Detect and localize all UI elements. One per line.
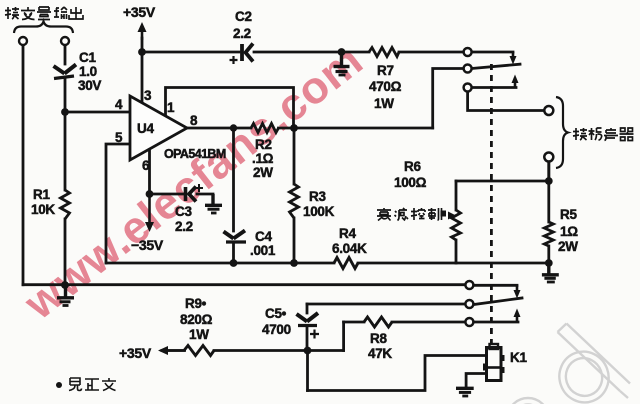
capacitor C4 [224,231,247,243]
wire line to contactB [307,303,465,306]
capacitor C1 [54,65,77,79]
char 制 [428,208,442,220]
svg-text:3: 3 [144,88,152,103]
ground G3 input [57,285,74,306]
cjk label 见正文 with bullet [56,378,116,391]
ground G4 R5 [542,263,559,282]
arrow contact lower up [516,316,519,322]
wire left input drop [22,45,25,285]
wire riser to contact2 [433,69,464,129]
arrow +35V bottom left [166,349,186,352]
char 减 [395,208,409,221]
wire C3 right to ground [197,194,213,200]
wire R6 pot left [455,181,458,263]
cjk label 衰减控制 [377,208,442,221]
bullet [56,382,62,388]
capacitor C5 plus [310,330,319,339]
char 声 [604,128,618,141]
capacitor C2 [242,44,253,62]
wire output [187,127,433,130]
wire inner bottom rail [106,262,456,265]
svg-text:5: 5 [115,130,123,145]
cjk label 接交叠输出 [5,7,83,20]
input brace (horizontal) [14,22,73,34]
svg-text:+35V: +35V [119,345,152,361]
speaker terminal 2 [544,153,553,162]
svg-text:.1Ω: .1Ω [252,151,274,166]
capacitor C3 [186,187,197,202]
svg-text:100K: 100K [303,204,335,219]
svg-text:100Ω: 100Ω [394,175,427,190]
svg-text:6: 6 [142,158,150,173]
wire R6 box top [456,180,549,183]
wire R5 branch [547,161,550,263]
svg-text:2.2: 2.2 [175,219,193,234]
wire bottom to relay [308,356,487,391]
arrow contact upper down [512,52,515,57]
char 杨 [589,128,602,140]
svg-text:820Ω: 820Ω [180,312,213,327]
wire contact3 to speaker [468,92,545,111]
svg-text:U4: U4 [137,121,154,136]
contact circle A [465,281,473,289]
wire pin6 [148,148,151,194]
char 出 [69,7,83,19]
arrow -35V [148,194,151,224]
wire C1 to R1 to ground [64,77,67,285]
svg-text:1: 1 [167,100,175,115]
char 见 [69,378,82,391]
wire R9 +35V line [162,349,344,352]
svg-text:30V: 30V [78,78,101,93]
svg-text:2.2: 2.2 [233,26,251,41]
svg-text:10K: 10K [31,202,55,217]
svg-text:R2: R2 [255,137,272,152]
arrow +35V top [141,30,144,40]
svg-text:C2: C2 [235,9,252,24]
svg-text:8: 8 [190,113,198,128]
svg-text:1W: 1W [374,96,394,111]
wire C3 left [150,193,184,196]
resistor R7 [369,48,399,57]
svg-text:1W: 1W [189,327,209,342]
char 器 [620,128,634,141]
svg-text:R4: R4 [339,226,356,241]
wire blade lower [474,298,522,305]
wire C5 node to bottom [306,351,309,391]
cjk label 接杨声器 [573,128,634,141]
wire C5 branch [306,304,309,351]
svg-text:R6: R6 [404,159,421,174]
resistor R2 [251,124,279,133]
arrow contact lower down [516,285,519,291]
dashed relay link [490,64,493,346]
svg-text:R9•: R9• [185,296,207,311]
potentiometer R6 [452,210,461,240]
char 接 [5,7,19,19]
wire relay to ground [466,374,486,388]
wire R6 box bottom [456,262,549,265]
speaker terminal 1 [544,106,553,115]
capacitor C3 plus [195,184,203,192]
terminal input left [19,37,27,45]
svg-text:−35V: −35V [131,237,164,253]
wire R8 line [344,321,518,324]
terminal input right [61,37,69,45]
contact circle 2 [464,65,472,73]
resistor R1 [61,190,70,219]
svg-text:4700: 4700 [262,322,291,337]
char 输 [54,7,67,19]
ground G5 relay [456,388,474,396]
resistor R5 [544,222,553,246]
ground G1 top [334,52,350,75]
svg-text:R8: R8 [370,331,387,346]
ground G2 C3 [205,194,222,213]
svg-text:47K: 47K [368,346,392,361]
wire R8 riser [342,322,345,351]
svg-text:OPA541BM: OPA541BM [164,147,226,161]
resistor R8 [364,317,392,327]
svg-text:6.04K: 6.04K [332,241,367,256]
wire pin4 [65,111,130,114]
wire speaker term2 drop [547,161,550,181]
svg-text:2W: 2W [253,165,273,180]
contact circle 1 [464,48,472,56]
svg-text:K1: K1 [510,350,527,365]
contact circle 3 [464,84,472,92]
wire throw upper [472,86,516,89]
char 文 [102,378,116,391]
svg-text:R7: R7 [377,63,394,78]
svg-text:4: 4 [115,97,123,112]
capacitor C2 plus [230,56,238,64]
wire C4 branch [232,128,235,263]
svg-text:2W: 2W [558,239,578,254]
wire feedback pin1 [166,88,294,127]
char 正 [85,379,99,390]
watermark red www.elecfans.com [14,34,372,330]
svg-text:470Ω: 470Ω [369,79,402,94]
wire R3 branch [293,128,296,263]
capacitor C5 [297,313,319,326]
contact circle B [465,300,473,308]
wire +35V vertical pin3 [141,38,144,103]
char 接 [573,128,587,140]
contact circle C [465,318,473,326]
svg-text:C1: C1 [79,50,96,65]
svg-text:C5•: C5• [265,306,287,321]
char 控 [411,208,425,220]
op-amp U1 triangle [130,96,187,160]
speaker brace [556,97,568,168]
char 叠 [37,7,51,20]
char 交 [21,7,35,20]
pot wiper arrow [441,211,447,217]
svg-text:R1: R1 [33,187,50,202]
resistor R9 [184,346,214,356]
wire pin5 [106,144,130,263]
resistor R3 [290,184,299,218]
resistor R4 [334,258,358,269]
wire blade upper [472,64,520,68]
wire bottom rail [23,283,517,286]
wire top rail [142,51,513,54]
svg-text:C4: C4 [255,229,272,244]
svg-text:1Ω: 1Ω [560,224,578,239]
svg-text:+35V: +35V [123,4,156,20]
svg-text:1.0: 1.0 [79,64,97,79]
svg-text:.001: .001 [250,243,276,258]
watermark gray letters bottom right [508,324,630,404]
svg-text:R3: R3 [309,189,326,204]
relay K1 coil [485,344,504,381]
wire right input to C1 [64,45,67,64]
svg-text:R5: R5 [560,207,577,222]
char 衰 [377,208,391,221]
svg-text:C3: C3 [175,204,192,219]
arrow contact upper up [514,82,517,88]
